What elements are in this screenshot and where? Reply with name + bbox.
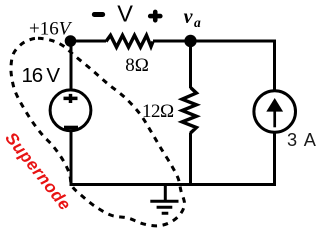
svg-text:v: v <box>184 6 194 28</box>
V1 plus sign <box>64 94 78 103</box>
wire top left: node A to resistor <box>70 40 106 43</box>
node B dot (va) <box>184 35 196 47</box>
resistor R2 12ohm zigzag <box>182 88 196 134</box>
svg-text:8Ω: 8Ω <box>125 55 149 76</box>
V1 minus sign <box>64 126 78 130</box>
ground <box>150 185 178 214</box>
wire left branch upper <box>70 41 73 89</box>
svg-text:Supernode: Supernode <box>1 129 75 215</box>
wire middle branch <box>189 41 192 185</box>
I1 arrow up <box>273 108 276 127</box>
svg-text:3 A: 3 A <box>287 130 317 150</box>
svg-text:a: a <box>194 15 201 30</box>
label minus of V <box>94 12 102 17</box>
label plus of V <box>150 12 160 20</box>
svg-text:12Ω: 12Ω <box>142 101 174 122</box>
voltage source V1 16V circle <box>50 90 91 131</box>
svg-text:16 V: 16 V <box>22 64 61 87</box>
wire left branch lower <box>70 132 171 187</box>
resistor R1 8ohm zigzag <box>106 35 153 47</box>
svg-text:V: V <box>117 0 133 26</box>
wire top right: resistor to node B to right corner and down <box>153 41 275 90</box>
wire bottom right <box>160 133 275 186</box>
supernode dashed ellipse <box>11 38 185 226</box>
current source I1 3A circle <box>254 91 296 133</box>
svg-text:+16V: +16V <box>29 18 73 39</box>
node A dot <box>65 35 77 47</box>
